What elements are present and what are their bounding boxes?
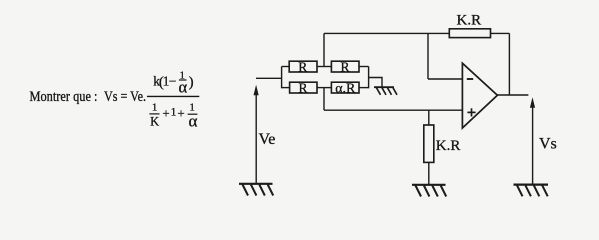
feedback right vertical to output bbox=[508, 33, 510, 95]
wire R2 to right bus bbox=[359, 66, 369, 68]
wire R3 to R4 bbox=[317, 87, 331, 89]
wire bus to R3 bbox=[282, 87, 290, 89]
svg-text:R: R bbox=[340, 59, 349, 74]
plus input wire bbox=[324, 109, 462, 111]
svg-text:Vs = Ve.: Vs = Ve. bbox=[104, 89, 146, 105]
wire: Ve input to divider left bus bbox=[256, 77, 282, 79]
denominator 1/K + 1 + 1/alpha bbox=[149, 102, 197, 131]
wire: top node up to feedback bbox=[323, 33, 325, 66]
ground under K.R bottom: bar bbox=[412, 184, 446, 186]
stub wire right bus to ground bbox=[369, 78, 382, 88]
svg-text:+: + bbox=[177, 106, 184, 121]
ground under Ve: hatches bbox=[243, 185, 274, 196]
svg-text:): ) bbox=[189, 75, 194, 91]
right bus of divider bbox=[368, 67, 370, 89]
output wire bbox=[497, 94, 528, 96]
op-amp minus symbol bbox=[467, 78, 473, 80]
wire: bottom node down bbox=[323, 88, 325, 110]
svg-text:K: K bbox=[150, 115, 159, 129]
svg-text:α: α bbox=[178, 77, 187, 96]
resistor R1 (top-left R) bbox=[289, 61, 317, 72]
wire R1 to R2 (node to feedback) bbox=[317, 66, 331, 68]
svg-text:Vs: Vs bbox=[539, 136, 557, 153]
ground at divider right: bar bbox=[374, 86, 394, 88]
main fraction bar bbox=[147, 95, 199, 97]
resistor K.R bottom (vertical) bbox=[424, 125, 434, 162]
ground under K.R bottom: hatches bbox=[416, 186, 447, 197]
resistor R4 (alpha.R) bbox=[331, 82, 359, 93]
svg-text:1: 1 bbox=[171, 107, 177, 119]
svg-text:1: 1 bbox=[152, 102, 158, 114]
wire K.R to right corner bbox=[491, 32, 510, 34]
resistor K.R (feedback) bbox=[449, 29, 490, 38]
Ve arrow head bbox=[254, 85, 259, 96]
wire R4 to right bus bbox=[359, 87, 369, 89]
svg-text:R: R bbox=[298, 59, 307, 74]
svg-text:Montrer que :: Montrer que : bbox=[30, 89, 98, 105]
Ve arrow line bbox=[255, 93, 257, 183]
op-amp U1 triangle bbox=[462, 63, 497, 128]
ground under Vs: bar bbox=[514, 184, 549, 186]
ground under Vs: hatches bbox=[517, 185, 548, 196]
svg-text:α: α bbox=[188, 111, 197, 130]
ground under Ve: bar bbox=[239, 183, 273, 185]
minus input wire bbox=[428, 78, 462, 80]
wire K.R bottom to ground bbox=[428, 162, 430, 184]
svg-text:α.R: α.R bbox=[335, 82, 356, 97]
resistor R3 (bottom-left R) bbox=[290, 82, 317, 93]
feedback wire top bbox=[324, 32, 449, 34]
svg-text:Ve: Ve bbox=[259, 131, 276, 148]
svg-text:K.R: K.R bbox=[436, 138, 461, 154]
numerator k(1-1/alpha) bbox=[153, 69, 193, 96]
Vs arrow line bbox=[532, 106, 534, 184]
wire bus to R1 bbox=[282, 66, 290, 68]
feedback vertical down to minus input bbox=[427, 33, 429, 79]
Vs arrow head bbox=[530, 97, 535, 108]
svg-text:−: − bbox=[169, 74, 177, 89]
op-amp plus symbol bbox=[467, 108, 475, 116]
svg-text:+: + bbox=[162, 106, 169, 121]
resistor R2 (top-right R) bbox=[331, 61, 359, 72]
svg-text:K.R: K.R bbox=[457, 12, 482, 28]
wire plus node to K.R bottom bbox=[428, 110, 430, 125]
left bus of divider bbox=[281, 67, 283, 89]
ground at divider right: hatches bbox=[377, 88, 398, 95]
svg-text:R: R bbox=[298, 80, 307, 95]
